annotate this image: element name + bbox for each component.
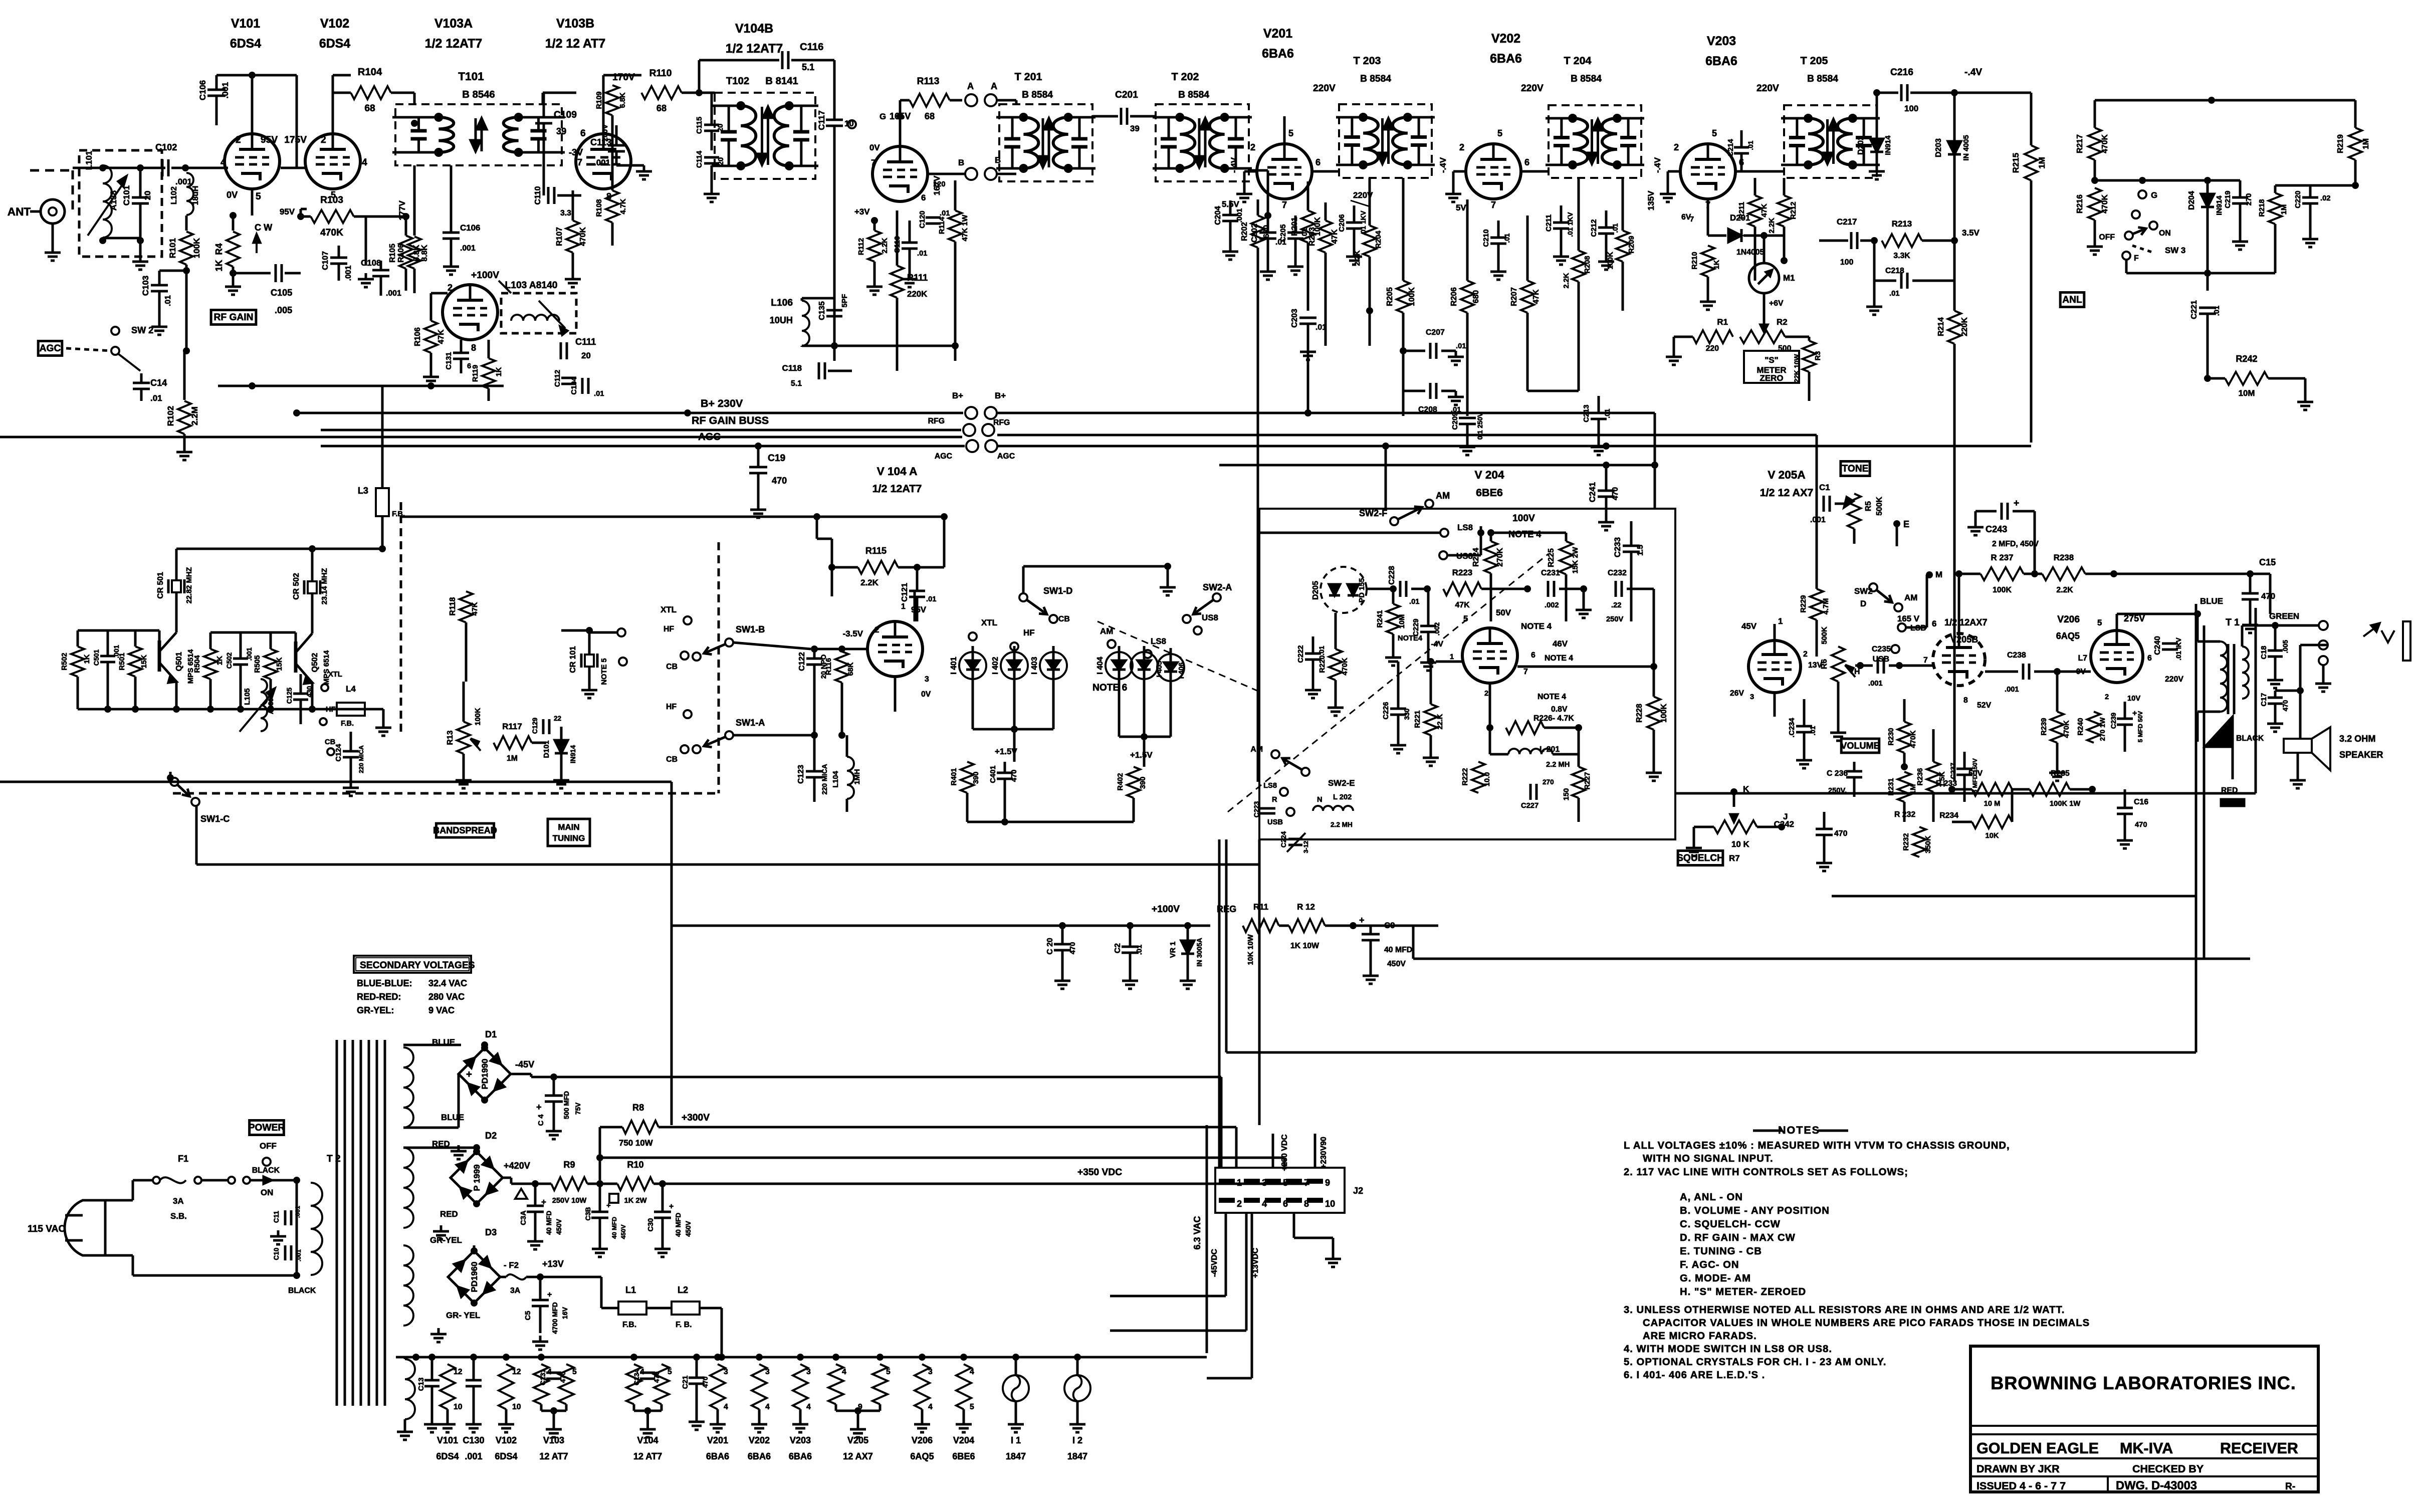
svg-text:F1: F1 [178, 1154, 188, 1164]
svg-text:MK-IVA: MK-IVA [2120, 1440, 2173, 1457]
svg-text:E: E [1903, 519, 1909, 529]
resistor R402 390 [1127, 767, 1140, 798]
ground C2 [1129, 975, 1132, 981]
svg-text:NOTE 6: NOTE 6 [1092, 683, 1127, 693]
svg-text:16V: 16V [561, 1307, 569, 1319]
svg-text:68: 68 [364, 103, 375, 114]
S METER ZERO label box [1744, 351, 1799, 383]
svg-text:C241: C241 [1588, 482, 1597, 502]
svg-text:L7: L7 [2078, 654, 2088, 663]
capacitor C102 .001 [161, 159, 164, 176]
svg-text:IN914: IN914 [569, 745, 577, 763]
resistor R10 1K 2W [617, 1177, 653, 1190]
svg-text:C10: C10 [273, 1248, 280, 1260]
svg-text:R-: R- [2285, 1481, 2295, 1492]
svg-text:C121: C121 [901, 583, 909, 602]
svg-text:.001: .001 [2005, 686, 2019, 694]
svg-text:5V: 5V [1456, 203, 1466, 212]
svg-text:2 MFD, 450V: 2 MFD, 450V [1992, 540, 2039, 548]
ground C220 [2309, 233, 2312, 239]
svg-text:100K: 100K [1607, 252, 1615, 270]
ground C19 [757, 504, 760, 510]
fuse F2 [500, 1276, 506, 1278]
transformer T2 sec gryel [403, 1245, 413, 1326]
ground R107 [572, 273, 574, 279]
svg-text:68: 68 [925, 111, 935, 121]
wire sw2f common [1259, 532, 1440, 534]
svg-text:SW 2: SW 2 [131, 325, 153, 335]
svg-text:470: 470 [2261, 591, 2275, 601]
wire V204 cathode [1489, 683, 1491, 728]
svg-text:XTL: XTL [981, 618, 997, 627]
svg-text:A: A [967, 81, 974, 91]
tube V104A [867, 621, 923, 677]
resistor R112 2.2K [868, 231, 881, 262]
svg-text:270 1W: 270 1W [2099, 717, 2106, 741]
wire V206 plate to T1 [2116, 614, 2118, 630]
svg-text:I 406: I 406 [1178, 663, 1186, 679]
svg-text:GREEN: GREEN [2269, 611, 2299, 621]
wire V204 grid left [1427, 589, 1428, 662]
resistor R231 1M [1898, 772, 1911, 802]
ground C20 [1061, 975, 1064, 981]
svg-text:280 VAC: 280 VAC [428, 992, 465, 1002]
svg-text:.02: .02 [2320, 194, 2330, 202]
svg-text:R4: R4 [214, 243, 224, 255]
wire V205B plate [1958, 617, 1960, 633]
svg-text:C108: C108 [361, 258, 381, 268]
svg-text:40 MFD: 40 MFD [1384, 946, 1412, 954]
antenna connector J1 [41, 199, 65, 224]
resistor R115 2.2K [858, 561, 898, 574]
capacitor C242b 470 [1816, 828, 1833, 830]
svg-text:R207: R207 [1510, 287, 1518, 306]
svg-text:.01: .01 [2213, 306, 2221, 316]
wire V102 plate to R104 [332, 75, 334, 134]
crystal CR101 [580, 654, 583, 668]
svg-text:3: 3 [1750, 693, 1754, 701]
svg-text:R6: R6 [1820, 659, 1829, 669]
svg-text:B+ 230V: B+ 230V [701, 397, 743, 409]
inductor L201 2.2MH [1508, 749, 1553, 754]
svg-text:C204: C204 [1214, 206, 1222, 225]
svg-text:V201: V201 [1263, 27, 1292, 41]
svg-text:C131: C131 [445, 352, 453, 369]
ground C205 [1294, 261, 1297, 267]
svg-text:2.2K: 2.2K [2056, 586, 2073, 594]
svg-text:2.2K: 2.2K [860, 578, 878, 587]
svg-text:SW2-F: SW2-F [1359, 508, 1387, 518]
VOLUME label box [1841, 739, 1879, 753]
svg-text:AGC: AGC [997, 452, 1015, 461]
svg-text:R212: R212 [1790, 201, 1798, 219]
svg-text:15K: 15K [276, 657, 284, 671]
wire T203 top 220V [1283, 116, 1286, 144]
capacitor C4 500MFD 75V [545, 1095, 563, 1097]
svg-text:12: 12 [512, 1368, 521, 1376]
svg-text:R235: R235 [2051, 769, 2070, 778]
svg-text:C218: C218 [1885, 267, 1904, 275]
svg-text:4: 4 [362, 157, 367, 168]
svg-text:2: 2 [1459, 142, 1464, 152]
svg-text:I 1: I 1 [1011, 1435, 1021, 1445]
svg-text:C228: C228 [1388, 566, 1396, 585]
svg-text:177V: 177V [397, 200, 407, 221]
svg-text:+230V90: +230V90 [1320, 1137, 1328, 1169]
transformer T2 sec blue [403, 1047, 413, 1128]
wire V203 6BA6 plate [1735, 170, 1784, 173]
wire sw1c run down [195, 805, 198, 865]
POWER label box [250, 1121, 284, 1135]
svg-text:C209: C209 [1451, 412, 1459, 429]
ground R108 [430, 371, 432, 377]
svg-text:D: D [1860, 599, 1866, 608]
svg-text:L4: L4 [346, 684, 356, 694]
svg-text:+100V: +100V [1152, 904, 1180, 915]
svg-text:R229: R229 [1800, 595, 1808, 612]
svg-text:5PF: 5PF [841, 294, 849, 308]
resistor R217 470K [2088, 128, 2101, 160]
ground C113 [643, 165, 645, 171]
svg-text:10V: 10V [2127, 695, 2140, 703]
svg-text:T 204: T 204 [1564, 55, 1592, 67]
svg-text:R115: R115 [865, 546, 887, 556]
AGC label box [38, 341, 62, 356]
svg-text:R118: R118 [449, 597, 457, 615]
svg-text:3.3K: 3.3K [1893, 252, 1910, 260]
ground L4 [382, 722, 385, 728]
svg-text:BLUE-BLUE:: BLUE-BLUE: [357, 978, 412, 988]
svg-text:3.5V: 3.5V [1962, 228, 1980, 238]
resistor R8 750 10W [622, 1121, 658, 1134]
svg-text:430: 430 [306, 686, 313, 698]
svg-text:BANDSPREAD: BANDSPREAD [433, 825, 497, 835]
svg-text:50V: 50V [1968, 769, 1983, 778]
diode D204 IN914 [2142, 179, 2208, 182]
svg-text:C216: C216 [1890, 67, 1913, 78]
power plug [65, 1200, 105, 1255]
capacitor C101 20 [132, 196, 149, 199]
capacitor C203 .01 [1299, 317, 1316, 319]
svg-text:C201: C201 [1115, 90, 1138, 100]
svg-text:1N4005: 1N4005 [1736, 248, 1765, 257]
svg-text:.005: .005 [275, 305, 292, 315]
svg-text:R226- 4.7K: R226- 4.7K [1533, 714, 1574, 723]
svg-text:390: 390 [1139, 777, 1147, 789]
svg-text:R117: R117 [502, 722, 522, 731]
resistor R504 1K [204, 649, 217, 679]
svg-text:R501: R501 [118, 653, 126, 670]
svg-text:CR 502: CR 502 [292, 573, 301, 600]
svg-text:BLACK: BLACK [288, 1286, 316, 1295]
svg-text:8: 8 [1963, 696, 1968, 705]
svg-text:OFF: OFF [2099, 233, 2115, 242]
svg-text:R106: R106 [397, 244, 405, 263]
capacitor C110 3.3 [547, 187, 550, 204]
resistor R110 68 [641, 86, 682, 99]
J2 wires up [1272, 1134, 1274, 1168]
svg-text:10K: 10K [1986, 832, 1999, 840]
svg-text:R220: R220 [1319, 655, 1327, 673]
svg-text:C107: C107 [321, 251, 330, 270]
svg-text:1/2 12 AX7: 1/2 12 AX7 [1760, 487, 1814, 499]
wire right bottom l-run [1226, 1051, 2196, 1054]
svg-text:R109: R109 [595, 91, 603, 109]
ground C202 [1267, 266, 1269, 272]
ground C114 [711, 188, 713, 194]
tube V103B [576, 134, 631, 189]
svg-text:LS8: LS8 [1263, 782, 1277, 790]
svg-text:1/2 12AT7: 1/2 12AT7 [425, 37, 482, 51]
capacitor C134 470 [640, 1372, 655, 1374]
svg-text:C205: C205 [1279, 224, 1287, 242]
svg-text:+1.5V: +1.5V [1130, 750, 1153, 760]
svg-text:R13: R13 [446, 730, 455, 745]
svg-text:4.7M: 4.7M [1822, 598, 1830, 615]
svg-text:C3B: C3B [584, 1207, 592, 1220]
svg-text:C110: C110 [534, 186, 542, 204]
long wire right bus 1 [1307, 346, 1309, 413]
ground R228 [1653, 767, 1655, 773]
capacitor C202 .01 [1259, 232, 1276, 234]
capacitor C132 470 [546, 1372, 561, 1374]
switch SW2 agc [111, 327, 119, 335]
capacitor C135 [826, 309, 842, 312]
wire top anl [2031, 100, 2032, 101]
svg-text:C235: C235 [1872, 645, 1891, 654]
svg-text:220V: 220V [1756, 83, 1779, 94]
svg-text:R218: R218 [2258, 199, 2266, 217]
svg-text:D101: D101 [543, 740, 551, 758]
svg-text:C124: C124 [335, 744, 343, 762]
svg-text:+: + [466, 1069, 472, 1080]
svg-text:RF GAIN BUSS: RF GAIN BUSS [692, 414, 769, 426]
capacitor C125 430 MICA [293, 693, 308, 695]
svg-text:6BA6: 6BA6 [1705, 54, 1737, 68]
svg-text:6: 6 [2147, 654, 2152, 663]
label XTL HF switch B [684, 616, 692, 624]
inductor L101 A138 [103, 165, 112, 238]
svg-text:.01: .01 [1889, 290, 1899, 298]
svg-text:0.8V: 0.8V [1551, 705, 1568, 714]
svg-text:68: 68 [656, 103, 667, 113]
svg-text:9 VAC: 9 VAC [428, 1005, 455, 1015]
wire R9 to R10 [587, 1183, 617, 1185]
svg-text:R239: R239 [2040, 718, 2048, 735]
svg-text:220V: 220V [1353, 190, 1373, 200]
svg-text:HF: HF [326, 706, 336, 714]
svg-text:V205B: V205B [1950, 634, 1978, 644]
wire collector bus q [210, 591, 211, 632]
capacitor C14 .01 [133, 382, 150, 384]
resistor R105 6.8K [399, 236, 412, 269]
svg-text:LS8: LS8 [1151, 636, 1166, 646]
ground C3B [599, 1243, 601, 1249]
svg-text:B: B [958, 158, 964, 167]
svg-text:OFF: OFF [260, 1141, 277, 1151]
capacitor C227 270 [1529, 784, 1532, 800]
svg-text:CR 501: CR 501 [156, 572, 165, 599]
resistor R505 15K [264, 649, 277, 679]
svg-text:R224: R224 [1472, 548, 1480, 567]
wire V205A cathode [1774, 693, 1776, 717]
wire +13V routing [562, 1276, 601, 1278]
svg-text:4. WITH MODE SWITCH IN LS: 4. WITH MODE SWITCH IN LS8 OR US8. [1624, 1344, 1832, 1355]
svg-text:4700 MFD: 4700 MFD [551, 1302, 559, 1334]
svg-text:12 AT7: 12 AT7 [633, 1451, 662, 1461]
svg-text:VOLUME: VOLUME [1841, 741, 1879, 751]
resistor R10x 4.7K [606, 190, 619, 223]
svg-text:C210: C210 [1482, 229, 1490, 247]
svg-text:V104: V104 [637, 1435, 658, 1445]
resistor R222 10.0 [1472, 762, 1485, 793]
capacitor C243 2MFD [2001, 503, 2003, 520]
svg-text:D1: D1 [485, 1029, 497, 1039]
ground C219 [2239, 236, 2242, 242]
svg-text:ANT: ANT [8, 205, 31, 218]
svg-text:WITH NO SIGNAL INPUT.: WITH NO SIGNAL INPUT. [1643, 1153, 1774, 1164]
svg-text:GOLDEN EAGLE: GOLDEN EAGLE [1976, 1440, 2099, 1457]
wire to V205B grid [1899, 665, 1933, 667]
ground R102 [183, 446, 186, 452]
svg-text:BLACK: BLACK [252, 1166, 280, 1175]
capacitor C218 .01 [1900, 273, 1903, 289]
ground VR1 [1187, 975, 1189, 981]
resistor R234 10K [1972, 815, 2012, 828]
svg-text:1K: 1K [216, 656, 224, 665]
svg-text:470: 470 [653, 1372, 661, 1383]
svg-text:10 M: 10 M [1984, 800, 2001, 808]
svg-text:R116: R116 [825, 658, 833, 675]
capacitor C229 .002 [1420, 625, 1436, 627]
resistor R401 390 [961, 762, 974, 793]
svg-text:HF: HF [666, 703, 677, 711]
capacitor C502 .001 [233, 658, 248, 660]
svg-text:L 202: L 202 [1333, 793, 1352, 801]
svg-text:+100V: +100V [471, 270, 499, 281]
svg-text:47K: 47K [1532, 289, 1541, 304]
speaker 3.2 ohm [2284, 739, 2312, 753]
resistor R208 2.2K [1572, 251, 1585, 282]
svg-text:ON: ON [261, 1188, 273, 1197]
capacitor C3B 40MFD 450V [591, 1211, 608, 1213]
svg-text:10.0: 10.0 [1483, 772, 1491, 787]
svg-text:6BA6: 6BA6 [706, 1451, 729, 1461]
svg-text:R216: R216 [2076, 194, 2084, 213]
tube V205B dashed [1933, 633, 1985, 686]
ground C17 [2274, 718, 2277, 724]
svg-text:470: 470 [1611, 487, 1620, 501]
inductor L202 2.2MH [1313, 806, 1353, 811]
svg-text:USB: USB [1267, 818, 1283, 826]
svg-text:R225: R225 [1547, 548, 1556, 567]
svg-text:2.2K: 2.2K [1563, 273, 1571, 288]
svg-text:GR-YEL: GR-YEL [430, 1235, 462, 1245]
svg-text:.01: .01 [1456, 342, 1466, 350]
svg-text:R2: R2 [1777, 317, 1788, 327]
svg-text:.01: .01 [1318, 645, 1326, 655]
svg-text:V 205A: V 205A [1768, 469, 1805, 481]
svg-text:B 8584: B 8584 [1807, 74, 1838, 84]
capacitor C3A 40MFD 450V [527, 1205, 544, 1207]
svg-text:C238: C238 [2007, 651, 2026, 660]
wire V205A plate [1774, 624, 1776, 640]
heater V206 [915, 1364, 930, 1409]
inductor L102 18uH [186, 173, 193, 215]
svg-text:LS8: LS8 [1457, 523, 1473, 532]
resistor R224 270K [1484, 541, 1497, 573]
svg-text:C11: C11 [273, 1210, 280, 1223]
svg-text:150: 150 [1563, 788, 1571, 801]
svg-text:-45V: -45V [515, 1059, 534, 1069]
diode D203 IN4005 [1948, 141, 1961, 154]
svg-text:220 MICA: 220 MICA [358, 745, 365, 773]
svg-text:7: 7 [1690, 215, 1694, 224]
svg-text:115 VAC: 115 VAC [28, 1224, 66, 1234]
svg-text:0V: 0V [227, 190, 238, 200]
svg-text:170V: 170V [612, 72, 635, 83]
svg-text:-3V: -3V [569, 147, 583, 157]
svg-text:B 8141: B 8141 [765, 76, 798, 87]
svg-text:TONE: TONE [1842, 464, 1869, 474]
resistor R207 47K [1521, 281, 1534, 313]
svg-text:.001: .001 [460, 244, 476, 253]
capacitor C109 39 [535, 116, 552, 119]
ground C211 [1560, 251, 1563, 257]
svg-text:R11: R11 [1253, 902, 1268, 912]
svg-text:D201: D201 [1730, 213, 1750, 223]
switch crystal sel [617, 628, 625, 636]
svg-text:450V: 450V [620, 1224, 627, 1239]
svg-text:.002: .002 [1433, 622, 1441, 635]
capacitor C104 [581, 378, 584, 394]
heater V103 [534, 1364, 549, 1404]
svg-text:3. UNLESS OTHERWISE NOTED A: 3. UNLESS OTHERWISE NOTED ALL RESISTORS … [1624, 1305, 2065, 1316]
svg-text:B+: B+ [995, 391, 1006, 400]
svg-text:I 401: I 401 [950, 657, 958, 674]
svg-text:.01 IKV: .01 IKV [2175, 637, 2182, 660]
svg-text:Q501: Q501 [175, 652, 183, 671]
heater V203 [793, 1364, 808, 1409]
capacitor C118 5.1 [818, 362, 820, 379]
wire V104A plate up [914, 591, 916, 621]
svg-text:I 403: I 403 [1030, 657, 1039, 674]
resistor R206 680 [1461, 281, 1474, 313]
long wires across right mid [997, 434, 1817, 437]
svg-text:4: 4 [970, 1368, 974, 1376]
meter M1 [1749, 263, 1779, 293]
svg-text:470: 470 [2135, 821, 2147, 829]
svg-text:C229: C229 [1412, 618, 1420, 636]
capacitor C205 .01 [1287, 232, 1303, 234]
ground V202 6BA6 k [1453, 170, 1466, 173]
ground R239 [2056, 767, 2059, 773]
svg-text:6: 6 [580, 128, 586, 139]
capacitor C240 .01 1KV [2162, 642, 2178, 645]
resistor R225 15K 2W [1560, 541, 1573, 574]
resistor R103 470K [301, 208, 307, 210]
svg-text:C131: C131 [539, 1369, 547, 1385]
photocell D205 PD155 [1321, 567, 1367, 613]
svg-text:V206: V206 [2057, 614, 2080, 625]
capacitor C20 470 [1054, 943, 1071, 946]
svg-text:2.2K: 2.2K [1354, 250, 1362, 266]
svg-text:RED: RED [440, 1209, 458, 1219]
wire heater bus [396, 1356, 1207, 1359]
svg-text:AGC: AGC [698, 431, 721, 443]
svg-text:I 2: I 2 [1072, 1435, 1082, 1445]
svg-text:R101: R101 [168, 238, 177, 258]
